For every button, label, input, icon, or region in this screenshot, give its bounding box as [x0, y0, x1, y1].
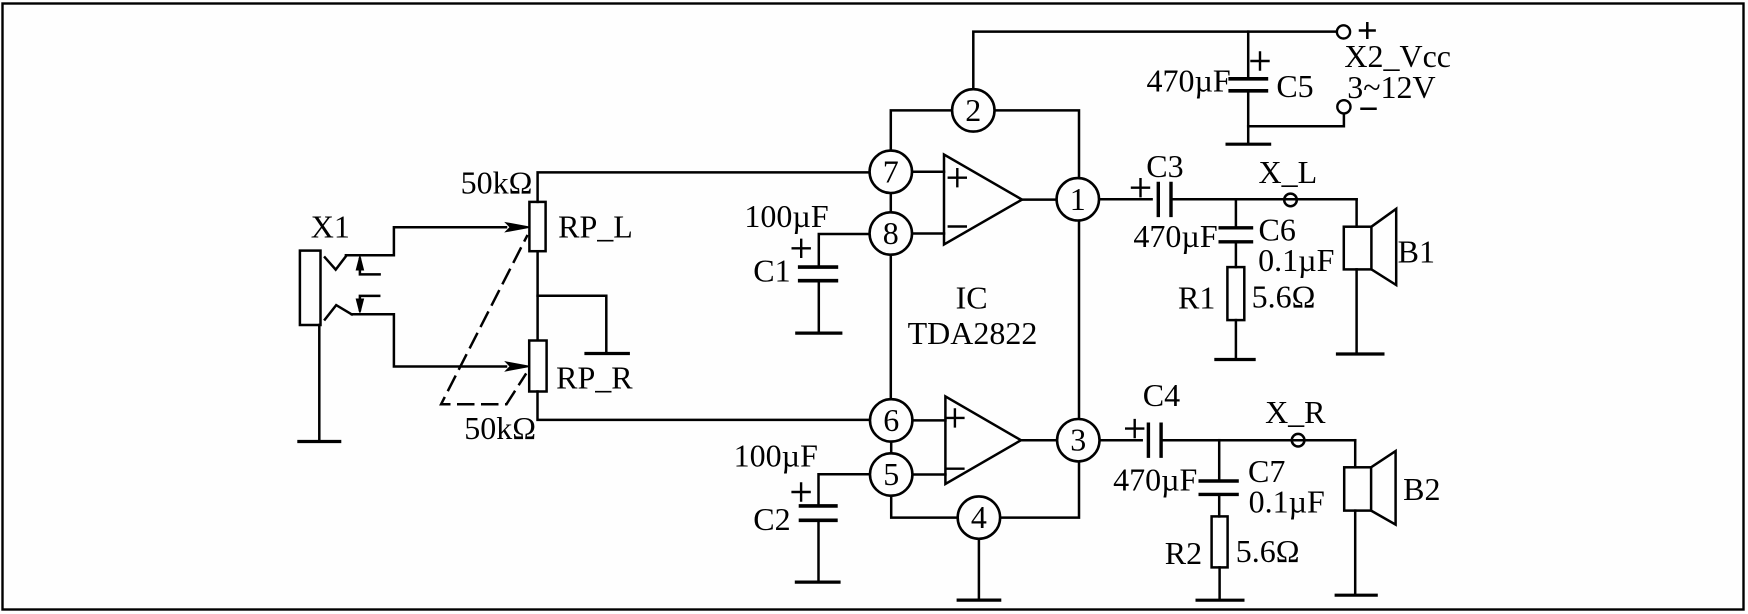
svg-text:0.1µF: 0.1µF [1249, 483, 1325, 519]
dashed gang coupling line [441, 236, 527, 404]
wire RP_L bottom to RP_R top [536, 251, 539, 340]
wire pin 8 to op-amp [912, 232, 944, 235]
svg-text:RP_L: RP_L [558, 209, 633, 245]
svg-text:C2: C2 [753, 501, 790, 537]
wire op-amp out to pin 1 [1022, 198, 1057, 201]
X1 lower switch arrow [360, 296, 379, 310]
resistor R2 [1212, 516, 1228, 567]
svg-text:C1: C1 [753, 252, 790, 288]
svg-text:TDA2822: TDA2822 [908, 315, 1038, 351]
ground C2 [796, 580, 839, 583]
wire X2 minus to C5 [1248, 113, 1344, 126]
svg-text:50kΩ: 50kΩ [464, 410, 536, 446]
IC box outline [891, 110, 1079, 517]
capacitor C2 [801, 506, 836, 520]
speaker B2 [1344, 467, 1371, 510]
ground pin 4 [958, 598, 1000, 601]
svg-text:B2: B2 [1403, 471, 1440, 507]
capacitor C1 [800, 267, 837, 281]
wire pin 5 to C2 [819, 474, 870, 506]
wire pin 6 to op-amp [912, 419, 945, 422]
svg-text:C4: C4 [1143, 377, 1180, 413]
svg-text:B1: B1 [1398, 234, 1435, 270]
C4 plus sign [1126, 420, 1143, 437]
speaker B1 [1344, 227, 1372, 270]
svg-text:IC: IC [956, 280, 988, 316]
wire pot junction to ground stub [538, 296, 607, 354]
wire pin 5 to op-amp [912, 473, 945, 476]
svg-text:R1: R1 [1178, 279, 1215, 315]
pin 4 [958, 496, 1000, 538]
svg-text:100µF: 100µF [734, 438, 818, 474]
C3 plus sign [1132, 179, 1149, 196]
svg-text:50kΩ: 50kΩ [461, 165, 533, 201]
capacitor C6 [1235, 199, 1238, 227]
arrowhead RP_R wiper [507, 362, 529, 370]
X1 upper contact [325, 256, 347, 270]
wire pin 7 to op-amp [912, 171, 944, 174]
X1 lower contact [325, 305, 352, 319]
svg-text:R2: R2 [1165, 535, 1202, 571]
svg-text:1: 1 [1070, 181, 1086, 217]
wire X1 sleeve to ground [318, 325, 321, 441]
wire pin 3 to C4 [1099, 439, 1141, 442]
capacitor C3 [1158, 183, 1171, 215]
svg-text:2: 2 [965, 92, 981, 128]
ground pot stub [586, 352, 628, 355]
X2 minus sign [1362, 107, 1376, 110]
capacitor C7 [1218, 440, 1221, 481]
svg-text:X_R: X_R [1265, 394, 1326, 430]
svg-text:5.6Ω: 5.6Ω [1236, 533, 1300, 569]
X1 upper switch arrow [360, 259, 380, 274]
wire pin 4 to ground [978, 538, 981, 600]
pin 1 [1057, 178, 1099, 220]
svg-text:5.6Ω: 5.6Ω [1252, 278, 1316, 314]
resistor R1 [1227, 267, 1244, 320]
svg-text:3~12V: 3~12V [1347, 69, 1435, 105]
op-amp U1b [945, 396, 1021, 484]
wire C3 to X_L [1171, 198, 1357, 201]
potentiometer RP_L [529, 202, 545, 251]
svg-text:RP_R: RP_R [556, 359, 633, 395]
wire upper contact to RP_L wiper [346, 227, 506, 255]
terminal X2 plus [1337, 25, 1350, 38]
ground R1 [1216, 358, 1254, 361]
ground C1 [797, 332, 841, 335]
X2 plus sign [1360, 23, 1375, 38]
capacitor C5 [1247, 32, 1250, 79]
svg-text:0.1µF: 0.1µF [1258, 242, 1334, 278]
C1 plus sign [793, 240, 810, 257]
pin 8 [870, 212, 912, 254]
svg-text:470µF: 470µF [1113, 462, 1197, 498]
svg-text:C5: C5 [1276, 68, 1313, 104]
wire pin 1 to C3 [1099, 198, 1152, 201]
ground R2 [1197, 599, 1243, 602]
C5 plus sign [1252, 53, 1269, 70]
svg-text:8: 8 [883, 215, 899, 251]
wire X_R to B2 [1354, 440, 1357, 467]
ground B2 [1336, 594, 1376, 597]
potentiometer RP_R [529, 341, 546, 392]
pin 5 [870, 453, 912, 495]
connector X1 body [300, 251, 321, 325]
svg-text:470µF: 470µF [1133, 218, 1217, 254]
svg-text:5: 5 [883, 456, 899, 492]
svg-text:6: 6 [883, 402, 899, 438]
wire pin 2 to supply rail [973, 32, 1336, 90]
terminal X2 minus [1337, 100, 1350, 113]
wire X_L to B1 [1355, 199, 1358, 226]
terminal X_R [1292, 434, 1305, 447]
svg-text:7: 7 [883, 153, 899, 189]
svg-text:X1: X1 [311, 208, 350, 244]
wire pin 8 to C1 [819, 234, 870, 267]
svg-text:4: 4 [971, 499, 987, 535]
wire RP_R bottom to pin 6 [538, 392, 870, 420]
wire C4 to X_R [1161, 439, 1355, 442]
svg-text:470µF: 470µF [1146, 63, 1230, 99]
ground B1 [1338, 352, 1383, 355]
pin 6 [870, 399, 912, 441]
ground X1 [299, 440, 340, 443]
ground C5 [1227, 143, 1270, 146]
capacitor C4 [1148, 424, 1161, 456]
wire RP_L top to pin 7 [538, 172, 870, 202]
C2 plus sign [793, 484, 810, 501]
op-amp U1a [944, 155, 1022, 245]
svg-text:C3: C3 [1146, 148, 1183, 184]
arrowhead RP_L wiper [507, 223, 529, 231]
wire op-amp out to pin 3 [1021, 439, 1057, 442]
svg-text:100µF: 100µF [744, 198, 828, 234]
terminal X_L [1284, 194, 1297, 207]
pin 2 [952, 89, 994, 131]
wire lower contact to RP_R wiper [352, 314, 506, 366]
svg-text:3: 3 [1070, 422, 1086, 458]
pin 3 [1057, 419, 1099, 461]
svg-text:X_L: X_L [1258, 154, 1317, 190]
pin 7 [870, 151, 912, 193]
